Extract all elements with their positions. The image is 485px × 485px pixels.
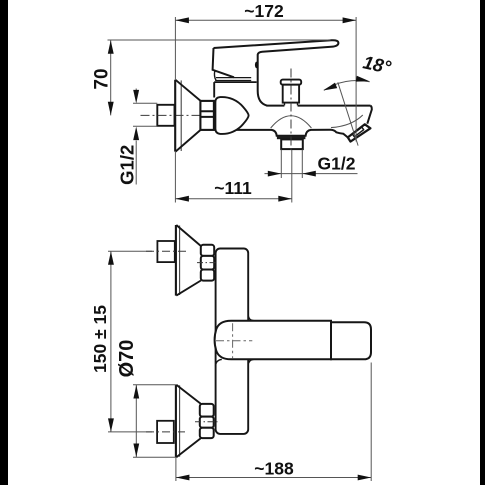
indicator dot on lever neck — [255, 62, 258, 69]
handle wedge base (side view) — [213, 48, 234, 77]
spout underside step (side view) — [331, 130, 348, 138]
shower outlet thread band — [277, 136, 306, 140]
bottom nut axis centerline — [195, 421, 219, 423]
dimension G1/2 (right, shower outlet) — [281, 150, 302, 179]
svg-text:70: 70 — [92, 68, 113, 89]
union nut (side view) — [200, 101, 214, 130]
top pipe axis centerline — [108, 250, 152, 252]
escutcheon flange (side view) — [174, 80, 176, 152]
cartridge axis crosshair — [216, 340, 252, 342]
body top edge (side view) — [267, 105, 371, 107]
spout right edge (side view) — [367, 106, 372, 124]
left black border bar — [0, 0, 8, 485]
body back strip (plan view) — [216, 249, 249, 434]
angle 18 deg annotation — [338, 82, 358, 145]
dimension diameter 70 — [133, 385, 176, 457]
spout aerator tip block (side view) — [348, 124, 371, 141]
dimension ~188 — [176, 363, 371, 482]
dimension ~172 — [174, 17, 176, 80]
svg-text:18°: 18° — [361, 51, 393, 77]
body bottom edge + shower boss pedestal (side view) — [219, 130, 331, 136]
diverter / shower axis centerline — [290, 69, 292, 151]
bottom wall connection: pipe stub (plan) — [157, 421, 174, 443]
spout (plan view) — [331, 322, 371, 359]
dimension G1/2 (left, wall pipe) — [133, 103, 157, 126]
faucet body (side view) left cap under handle — [213, 82, 215, 97]
svg-text:G1/2: G1/2 — [318, 154, 356, 174]
bottom flange (plan) — [175, 385, 177, 457]
svg-text:G1/2: G1/2 — [117, 145, 138, 185]
top flange (plan) — [175, 225, 177, 296]
svg-text:150 ± 15: 150 ± 15 — [90, 305, 110, 373]
strip-body fillets — [216, 315, 254, 367]
dimension ~111 — [174, 152, 176, 203]
dimension 70 — [108, 39, 331, 41]
svg-text:~111: ~111 — [214, 178, 252, 198]
top union nut (plan) — [201, 245, 214, 256]
spout bell arc (thin) — [331, 115, 363, 128]
eccentric cone cover (bullet, side view) — [215, 97, 248, 134]
svg-text:Ø70: Ø70 — [116, 340, 138, 378]
bottom pipe axis centerline — [108, 431, 152, 433]
shower boss dome (side view) — [271, 116, 312, 128]
bottom union nut (plan) — [200, 404, 214, 417]
svg-text:~188: ~188 — [254, 459, 294, 479]
mixer body (plan view) — [215, 321, 331, 360]
shower outlet nipple G1/2 — [281, 139, 303, 149]
right black border bar — [480, 0, 485, 485]
svg-text:~172: ~172 — [244, 1, 284, 21]
wall pipe stub G1/2 (side view) — [157, 105, 174, 126]
top nut axis centerline — [197, 262, 216, 264]
top wall connection: pipe stub (plan) — [157, 241, 174, 262]
centerline of wall connection (side view) — [141, 114, 212, 116]
lever handle (side view) — [214, 40, 339, 105]
dimension 150 +/- 15 — [110, 251, 112, 432]
diverter knob (side view) — [281, 80, 302, 85]
